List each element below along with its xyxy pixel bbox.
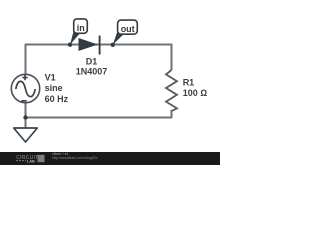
svg-text:D1: D1 bbox=[86, 56, 98, 66]
svg-text:sine: sine bbox=[45, 83, 63, 93]
svg-text:R1: R1 bbox=[183, 78, 195, 88]
svg-text:LAB: LAB bbox=[27, 160, 35, 164]
svg-text:1N4007: 1N4007 bbox=[76, 66, 108, 76]
svg-text:V1: V1 bbox=[45, 73, 56, 83]
svg-text:60 Hz: 60 Hz bbox=[45, 94, 69, 104]
svg-text:http://circuitlab.com/c6og52v: http://circuitlab.com/c6og52v bbox=[52, 156, 98, 160]
svg-text:out: out bbox=[121, 24, 135, 34]
svg-text:100 Ω: 100 Ω bbox=[183, 88, 208, 98]
svg-text:in: in bbox=[77, 23, 85, 33]
